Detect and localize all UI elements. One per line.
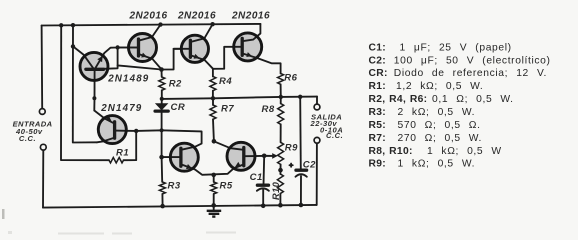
svg-text:2N1489: 2N1489 xyxy=(107,74,149,85)
svg-text:R5: R5 xyxy=(220,181,233,192)
svg-text:R10: R10 xyxy=(271,181,281,200)
svg-text:C.C.: C.C. xyxy=(19,134,36,143)
svg-text:C2: C2 xyxy=(303,159,316,170)
svg-text:CR: CR xyxy=(171,102,186,113)
svg-text:R8: R8 xyxy=(262,104,275,115)
svg-text:R7:270 Ω; 0,5 W.: R7:270 Ω; 0,5 W. xyxy=(369,133,483,144)
svg-text:R8, R10:1 kΩ; 0,5 W: R8, R10:1 kΩ; 0,5 W xyxy=(369,146,502,157)
svg-text:2N2016: 2N2016 xyxy=(231,11,270,22)
svg-text:R1:1,2 kΩ; 0,5 W.: R1:1,2 kΩ; 0,5 W. xyxy=(369,81,484,92)
svg-text:R4: R4 xyxy=(219,76,232,87)
svg-text:R1: R1 xyxy=(116,148,129,159)
svg-text:2N2016: 2N2016 xyxy=(177,11,216,22)
svg-text:C.C.: C.C. xyxy=(326,131,343,140)
svg-text:R9:1 kΩ; 0,5 W.: R9:1 kΩ; 0,5 W. xyxy=(369,159,476,170)
svg-text:C1: C1 xyxy=(250,172,263,183)
svg-text:R3:2 kΩ; 0,5 W.: R3:2 kΩ; 0,5 W. xyxy=(369,107,476,118)
svg-text:2N2016: 2N2016 xyxy=(128,11,167,22)
svg-text:2N1479: 2N1479 xyxy=(100,103,142,114)
svg-text:R5:570 Ω; 0,5 Ω.: R5:570 Ω; 0,5 Ω. xyxy=(369,120,481,131)
svg-text:R7: R7 xyxy=(221,104,234,115)
svg-text:R2: R2 xyxy=(169,79,182,90)
svg-text:R3: R3 xyxy=(168,181,181,192)
svg-text:R6: R6 xyxy=(284,72,297,83)
svg-text:C2:100 μF; 50 V (electrolítico: C2:100 μF; 50 V (electrolítico) xyxy=(369,55,551,66)
svg-text:R2, R4, R6:0,1 Ω; 0,5 W.: R2, R4, R6:0,1 Ω; 0,5 W. xyxy=(369,94,514,105)
svg-text:CR:Diodo de referencia; 12 V.: CR:Diodo de referencia; 12 V. xyxy=(369,68,548,79)
svg-text:R9: R9 xyxy=(285,143,298,154)
